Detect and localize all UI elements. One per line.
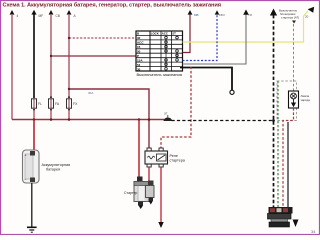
fuse FL1 — [32, 96, 43, 119]
svg-text:30А: 30А — [88, 91, 93, 95]
starter M1 — [134, 177, 154, 210]
svg-text:LOCK: LOCK — [151, 32, 159, 36]
node bus fuse3 — [68, 118, 71, 121]
svg-text:стартера: стартера — [170, 159, 186, 163]
svg-text:Р: Р — [137, 54, 139, 58]
wire green dashed — [277, 81, 279, 208]
node bus relay feed — [148, 118, 151, 121]
ground — [27, 227, 37, 232]
svg-text:заряда: заряда — [301, 98, 311, 102]
svg-text:15: 15 — [137, 45, 141, 49]
wire generator B+ thick dashed — [273, 15, 275, 208]
node on L3 at y56 — [50, 55, 52, 57]
arrow generator B+ top — [270, 9, 277, 16]
lamp charge indicator — [289, 91, 299, 108]
svg-text:Стартер: Стартер — [124, 191, 137, 195]
wire starter main feed — [138, 120, 140, 178]
svg-text:Реле: Реле — [170, 154, 178, 158]
node bus fuse1 — [33, 118, 36, 121]
wire main bus — [12, 119, 164, 121]
svg-text:54: 54 — [137, 63, 141, 67]
svg-text:Выключатель зажигания: Выключатель зажигания — [137, 72, 182, 77]
svg-text:ТО: ТО — [248, 13, 253, 17]
wire gray from table — [183, 15, 247, 65]
svg-text:20: 20 — [305, 15, 309, 19]
fuse FX3 — [67, 96, 79, 119]
node bus starter feed — [138, 118, 141, 121]
svg-text:–: – — [25, 178, 27, 182]
svg-text:ACC: ACC — [162, 32, 168, 36]
svg-text:30: 30 — [137, 67, 141, 71]
svg-text:батарея: батарея — [46, 168, 60, 172]
terminal circle — [230, 90, 234, 94]
wire L4 pink vertical — [68, 14, 70, 97]
generator G1 — [268, 214, 299, 228]
wire branch dashed to table row 30 — [69, 37, 136, 39]
wire branch to relay feed — [69, 89, 149, 148]
relay K1 — [145, 148, 168, 167]
fuse FA2 — [49, 96, 60, 119]
battery GB1 — [23, 150, 40, 183]
arrow yellow top right — [304, 7, 315, 19]
wire branch solid to table — [51, 55, 136, 57]
svg-text:ЗГ: ЗГ — [164, 112, 168, 116]
svg-text:FX: FX — [73, 102, 78, 106]
svg-text:МВ: МВ — [194, 13, 199, 17]
wire lamp feed dashed — [293, 24, 295, 91]
arrow A4 — [67, 10, 77, 18]
wire relay contact down — [160, 167, 162, 222]
arrow A5 — [188, 10, 199, 17]
node on L4 at y38 — [68, 37, 70, 39]
svg-text:15О: 15О — [219, 13, 225, 17]
svg-text:30: 30 — [137, 36, 141, 40]
wire thin black strand — [287, 122, 289, 208]
arrow A3 — [49, 10, 60, 18]
svg-text:стартера (АТ): стартера (АТ) — [281, 16, 299, 20]
svg-text:50: 50 — [137, 50, 141, 54]
svg-text:ACC: ACC — [137, 41, 144, 45]
svg-text:FL: FL — [38, 102, 42, 106]
wire battery negative — [31, 183, 33, 227]
svg-text:А: А — [74, 14, 77, 18]
arrow A1 — [10, 10, 19, 18]
svg-text:ST: ST — [172, 32, 176, 36]
arrow A2 — [31, 10, 43, 18]
svg-text:СВ: СВ — [56, 14, 60, 18]
wire L2 black vertical — [33, 14, 35, 97]
svg-text:MF: MF — [39, 14, 44, 18]
arrow down terminal — [158, 222, 163, 228]
wire lamp to generator dashed red — [283, 108, 294, 208]
node bus fuse2 — [50, 118, 53, 121]
wire start signal dashed — [161, 67, 191, 149]
label interlock text block — [279, 9, 299, 24]
svg-text:15А: 15А — [137, 58, 143, 62]
node generator junction — [272, 119, 275, 122]
svg-text:FA: FA — [55, 102, 60, 106]
svg-text:+: + — [25, 154, 27, 158]
wire L1 pink vertical — [11, 14, 13, 120]
wire battery positive — [33, 120, 35, 151]
svg-text:Схема 1. Аккумуляторная батаре: Схема 1. Аккумуляторная батарея, генерат… — [3, 2, 222, 9]
svg-text:4: 4 — [17, 14, 19, 18]
wire black dashed bus to generator — [172, 120, 274, 122]
wire relay coil to solenoid — [148, 167, 150, 181]
dashed enclosure box — [277, 81, 297, 121]
wire A5 to table — [183, 15, 191, 53]
generator connector — [269, 207, 293, 214]
wire yellow from table — [183, 16, 304, 42]
wire L3 pink vertical — [50, 14, 52, 97]
svg-text:34: 34 — [311, 229, 316, 234]
svg-text:Аккумуляторная: Аккумуляторная — [42, 163, 71, 167]
ignition switch contact table — [136, 31, 183, 71]
node on L4 at y89 — [68, 88, 70, 90]
wire black thick from table bottom — [180, 68, 232, 91]
connector C1 — [164, 112, 173, 122]
wire blue dashed from table — [183, 14, 218, 61]
